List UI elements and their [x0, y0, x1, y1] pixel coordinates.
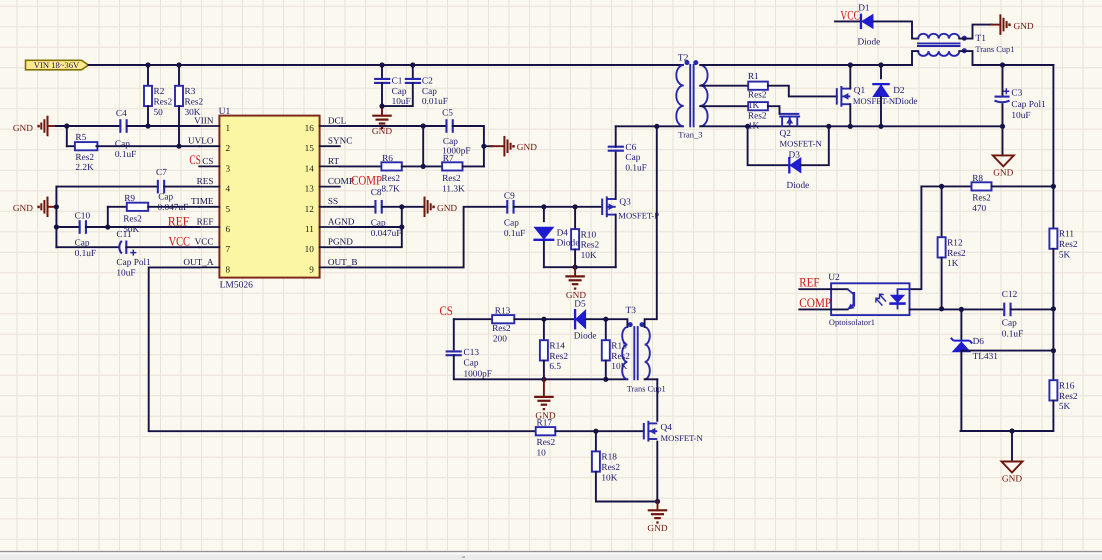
svg-text:16: 16	[305, 123, 315, 133]
svg-text:R15: R15	[611, 341, 627, 351]
svg-text:GND: GND	[13, 204, 33, 214]
svg-text:Res2: Res2	[549, 352, 568, 362]
svg-text:200: 200	[493, 335, 507, 345]
svg-text:3: 3	[226, 163, 231, 173]
svg-text:10: 10	[537, 449, 547, 459]
svg-text:REF: REF	[197, 216, 214, 226]
svg-text:R12: R12	[947, 238, 963, 248]
svg-text:RES: RES	[197, 176, 214, 186]
svg-text:REF: REF	[799, 275, 819, 290]
svg-text:R6: R6	[382, 154, 393, 164]
svg-text:T1: T1	[975, 34, 986, 44]
svg-text:8: 8	[226, 264, 231, 274]
svg-text:Q1: Q1	[854, 86, 866, 96]
svg-text:Res2: Res2	[1059, 240, 1078, 250]
svg-text:U1: U1	[219, 107, 231, 117]
svg-text:C13: C13	[464, 348, 480, 358]
svg-text:VIN 18~36V: VIN 18~36V	[34, 60, 80, 70]
svg-text:C3: C3	[1011, 89, 1022, 99]
svg-text:Cap: Cap	[443, 137, 458, 147]
svg-text:C10: C10	[75, 211, 91, 221]
svg-text:5K: 5K	[1059, 251, 1071, 261]
svg-text:CS: CS	[189, 152, 201, 167]
svg-text:Res2: Res2	[581, 241, 600, 251]
svg-text:Q4: Q4	[661, 423, 673, 433]
svg-text:Cap: Cap	[115, 140, 130, 150]
svg-text:R7: R7	[443, 154, 454, 164]
svg-text:COMP: COMP	[799, 295, 831, 310]
svg-text:Diode: Diode	[895, 97, 918, 107]
svg-text:0.1uF: 0.1uF	[1002, 330, 1023, 340]
svg-text:U2: U2	[828, 273, 840, 283]
svg-text:Res2: Res2	[123, 215, 142, 225]
svg-text:Cap: Cap	[1002, 318, 1017, 328]
svg-text:Diode: Diode	[787, 181, 810, 191]
svg-text:10K: 10K	[611, 362, 627, 372]
svg-text:Cap: Cap	[464, 358, 479, 368]
svg-text:10K: 10K	[601, 473, 617, 483]
svg-text:Trans Cup1: Trans Cup1	[975, 45, 1014, 54]
svg-text:Res2: Res2	[601, 463, 620, 473]
svg-text:Res2: Res2	[185, 97, 204, 107]
svg-text:7: 7	[226, 244, 231, 254]
svg-text:GND: GND	[647, 524, 667, 534]
svg-text:30K: 30K	[185, 108, 201, 118]
svg-text:DCL: DCL	[328, 115, 347, 125]
svg-text:R13: R13	[495, 306, 511, 316]
svg-text:GND: GND	[437, 204, 457, 214]
svg-text:AGND: AGND	[328, 216, 355, 226]
svg-text:CS: CS	[202, 156, 213, 166]
svg-text:470: 470	[972, 204, 986, 214]
svg-text:R9: R9	[124, 194, 135, 204]
svg-text:Tran_3: Tran_3	[678, 129, 702, 139]
svg-text:TL431: TL431	[973, 352, 999, 362]
svg-text:1K: 1K	[947, 259, 959, 269]
svg-text:0.1uF: 0.1uF	[115, 150, 136, 160]
svg-text:C5: C5	[442, 108, 453, 118]
svg-text:D4: D4	[557, 228, 569, 238]
svg-text:MOSFET-N: MOSFET-N	[661, 433, 704, 443]
svg-text:Cap: Cap	[504, 219, 519, 229]
svg-text:50: 50	[154, 108, 164, 118]
svg-text:OUT_B: OUT_B	[328, 257, 358, 267]
svg-text:R17: R17	[537, 418, 553, 428]
svg-text:LM5026: LM5026	[220, 280, 254, 290]
svg-text:10uF: 10uF	[116, 269, 135, 279]
svg-text:13: 13	[305, 184, 315, 194]
svg-text:2.2K: 2.2K	[75, 163, 94, 173]
svg-text:0.047uF: 0.047uF	[371, 229, 402, 239]
svg-text:Res2: Res2	[972, 194, 991, 204]
svg-text:T2: T2	[678, 53, 689, 63]
svg-text:TIME: TIME	[191, 196, 214, 206]
svg-text:MOSFET-N: MOSFET-N	[780, 138, 823, 148]
svg-text:C8: C8	[371, 188, 382, 198]
svg-text:0.1uF: 0.1uF	[75, 249, 96, 259]
svg-text:RT: RT	[328, 156, 340, 166]
svg-text:T3: T3	[626, 306, 637, 316]
svg-text:Q3: Q3	[619, 197, 631, 207]
svg-text:CS: CS	[440, 303, 453, 318]
svg-text:REF: REF	[168, 213, 189, 228]
svg-text:GND: GND	[1002, 475, 1022, 485]
svg-text:COMP: COMP	[351, 172, 382, 187]
svg-text:6.5: 6.5	[549, 362, 561, 372]
svg-text:GND: GND	[372, 127, 392, 137]
svg-text:R8: R8	[972, 174, 983, 184]
svg-text:VCC: VCC	[195, 237, 214, 247]
svg-text:C6: C6	[625, 143, 636, 153]
svg-text:MOSFET-P: MOSFET-P	[618, 211, 659, 221]
svg-text:10uF: 10uF	[1011, 111, 1030, 121]
svg-text:D1: D1	[858, 3, 870, 13]
svg-text:D6: D6	[973, 337, 985, 347]
svg-text:14: 14	[305, 163, 315, 173]
svg-text:10uF: 10uF	[392, 97, 411, 107]
svg-text:Res2: Res2	[154, 97, 173, 107]
svg-text:GND: GND	[517, 143, 537, 153]
svg-text:Res2: Res2	[75, 153, 94, 163]
svg-text:OUT_A: OUT_A	[183, 257, 213, 267]
svg-text:Res2: Res2	[381, 174, 400, 184]
svg-text:Res2: Res2	[748, 111, 767, 121]
svg-text:C2: C2	[422, 77, 433, 87]
svg-text:Res2: Res2	[537, 438, 556, 448]
svg-text:Cap: Cap	[392, 87, 407, 97]
svg-text:Res2: Res2	[492, 324, 511, 334]
svg-text:0.1uF: 0.1uF	[625, 163, 646, 173]
svg-text:Cap: Cap	[422, 87, 437, 97]
svg-text:Cap: Cap	[158, 193, 173, 203]
svg-text:D5: D5	[574, 299, 586, 309]
svg-text:C12: C12	[1002, 290, 1018, 300]
svg-text:9: 9	[309, 264, 314, 274]
svg-text:12: 12	[305, 204, 315, 214]
svg-text:Res2: Res2	[1059, 392, 1078, 402]
svg-text:VCC: VCC	[840, 8, 860, 23]
svg-text:R11: R11	[1059, 230, 1075, 240]
svg-text:C7: C7	[156, 168, 167, 178]
svg-text:D3: D3	[789, 151, 801, 161]
svg-text:R1: R1	[748, 72, 759, 82]
svg-text:Cap: Cap	[625, 153, 640, 163]
svg-text:R18: R18	[601, 453, 617, 463]
svg-text:11: 11	[305, 224, 314, 234]
svg-text:R16: R16	[1059, 381, 1075, 391]
svg-text:15: 15	[305, 143, 315, 153]
svg-text:Diode: Diode	[858, 38, 881, 48]
svg-text:Res2: Res2	[442, 174, 461, 184]
svg-text:MOSFET-N: MOSFET-N	[853, 96, 896, 106]
svg-text:5: 5	[226, 204, 231, 214]
svg-text:Diode: Diode	[574, 332, 597, 342]
svg-text:1: 1	[226, 123, 231, 133]
svg-text:6: 6	[226, 224, 231, 234]
svg-text:VCC: VCC	[169, 233, 190, 248]
svg-text:1000pF: 1000pF	[464, 370, 492, 380]
svg-text:SYNC: SYNC	[328, 136, 353, 146]
svg-text:C9: C9	[504, 192, 515, 202]
svg-text:8.7K: 8.7K	[381, 184, 400, 194]
svg-text:R5: R5	[75, 133, 86, 143]
svg-text:5K: 5K	[1059, 402, 1071, 412]
svg-text:10K: 10K	[581, 251, 597, 261]
svg-text:C11: C11	[116, 230, 132, 240]
svg-text:R14: R14	[549, 341, 565, 351]
svg-text:COMP: COMP	[328, 176, 354, 186]
svg-text:2: 2	[226, 143, 231, 153]
svg-text:GND: GND	[1014, 22, 1034, 32]
svg-text:Diode: Diode	[557, 239, 580, 249]
svg-text:0.01uF: 0.01uF	[422, 97, 448, 107]
svg-text:C1: C1	[392, 77, 403, 87]
svg-text:GND: GND	[13, 124, 33, 134]
svg-text:GND: GND	[993, 168, 1013, 178]
svg-text:4: 4	[226, 184, 231, 194]
svg-text:11.3K: 11.3K	[442, 184, 465, 194]
svg-text:R2: R2	[154, 87, 165, 97]
svg-text:0.047uF: 0.047uF	[158, 203, 189, 213]
svg-text:10: 10	[305, 244, 315, 254]
svg-text:UVLO: UVLO	[188, 136, 214, 146]
svg-text:R3: R3	[185, 87, 196, 97]
svg-text:0.1uF: 0.1uF	[504, 229, 525, 239]
svg-text:R10: R10	[581, 230, 597, 240]
svg-text:Cap Pol1: Cap Pol1	[1011, 100, 1046, 110]
svg-text:Trans Cup1: Trans Cup1	[627, 384, 666, 393]
svg-text:C4: C4	[116, 109, 127, 119]
svg-text:Cap Pol1: Cap Pol1	[116, 258, 151, 268]
svg-text:1K: 1K	[748, 101, 760, 111]
svg-text:Res2: Res2	[947, 249, 966, 259]
svg-text:SS: SS	[328, 196, 338, 206]
svg-text:PGND: PGND	[328, 237, 353, 247]
svg-text:Res2: Res2	[611, 352, 630, 362]
svg-text:D2: D2	[893, 86, 905, 96]
svg-text:Optoisolator1: Optoisolator1	[829, 318, 875, 327]
svg-text:Res2: Res2	[748, 91, 767, 101]
